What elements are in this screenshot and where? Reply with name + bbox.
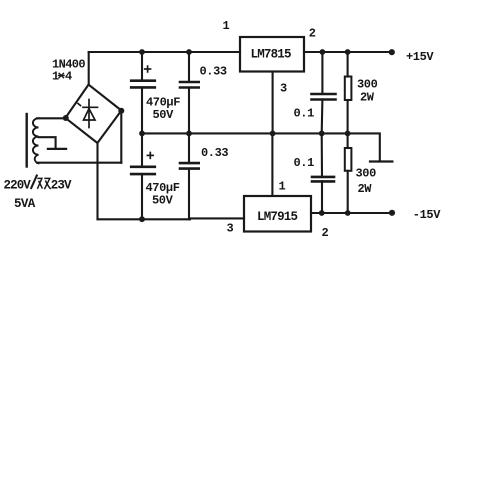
wire: -15V output rail [311, 212, 392, 214]
svg-text:2W: 2W [358, 182, 373, 196]
svg-text:3: 3 [227, 222, 234, 236]
svg-text:-15V: -15V [413, 208, 441, 222]
svg-text:50V: 50V [152, 194, 174, 208]
diode symbol inside bridge [78, 100, 98, 128]
node: -15V rail junctions [319, 210, 325, 216]
svg-text:0.33: 0.33 [201, 146, 228, 160]
transformer T1 core [26, 114, 28, 167]
svg-text:220V: 220V [4, 179, 32, 193]
capacitor C2 0.33 upper [180, 52, 199, 133]
wire: top +rail [89, 51, 240, 53]
wire: bottom -rail left [98, 217, 245, 220]
svg-text:1: 1 [223, 19, 230, 33]
capacitor C1 470uF upper [131, 52, 155, 133]
wire: secondary top to bridge AC node [37, 117, 66, 119]
wire: center tap [39, 137, 56, 147]
resistor R1 300 2W [345, 52, 352, 133]
svg-text:LM7815: LM7815 [251, 48, 292, 62]
node: 0V rail junctions [139, 131, 145, 137]
svg-text:300: 300 [357, 78, 378, 92]
capacitor C6 0.1 lower [312, 133, 334, 213]
wire: bridge + output up to +rail [88, 52, 90, 85]
op-amp U2 LM7915 box [244, 196, 311, 232]
node: junction dots top rail [63, 49, 395, 222]
resistor R2 300 2W [345, 133, 352, 213]
svg-text:300: 300 [356, 167, 377, 181]
svg-text:3: 3 [280, 82, 287, 96]
svg-text:4: 4 [65, 70, 72, 84]
svg-text:LM7915: LM7915 [257, 210, 298, 224]
node: -rail left junction [139, 216, 145, 222]
wire: bridge - output down to -rail [96, 143, 98, 219]
svg-text:+15V: +15V [406, 50, 434, 64]
transformer T1 secondary winding [33, 118, 39, 163]
wire: bridge right AC node down [120, 111, 122, 163]
wire: secondary bottom to bridge AC node [37, 162, 121, 164]
capacitor C5 0.1 upper [312, 52, 336, 133]
capacitor C3 470uF lower [131, 133, 155, 219]
svg-text:5VA: 5VA [14, 197, 36, 211]
svg-text:2W: 2W [360, 91, 375, 105]
node: bridge AC left [63, 115, 69, 121]
capacitor C4 0.33 lower [180, 133, 199, 219]
ground: center tap ground bar [48, 148, 66, 150]
label: 220V / 双 23V [4, 175, 73, 193]
node: bridge AC right [118, 108, 124, 114]
node: -15V terminal [389, 210, 395, 216]
svg-text:23V: 23V [51, 179, 72, 193]
svg-text:0.33: 0.33 [200, 65, 227, 79]
wire: +15V output rail [304, 51, 392, 53]
node: +15V rail junctions [320, 49, 326, 55]
svg-text:0.1: 0.1 [294, 156, 315, 170]
svg-text:1: 1 [279, 179, 286, 193]
wire: U2 pin1 to 0V rail [271, 133, 273, 196]
bridge rectifier D1 (diamond) [65, 85, 121, 143]
ground: 0V rail ground bar [370, 160, 392, 162]
svg-text:0.1: 0.1 [294, 107, 315, 121]
svg-text:2: 2 [322, 226, 329, 240]
node: +15V terminal [389, 49, 395, 55]
wire: U1 pin3 to 0V rail [272, 72, 274, 134]
hanzi: 双 (drawn) [37, 178, 50, 189]
svg-text:2: 2 [309, 27, 316, 41]
wire: middle 0V rail [142, 133, 380, 161]
op-amp U1 LM7815 box [240, 37, 304, 72]
svg-text:1: 1 [52, 70, 59, 84]
svg-text:50V: 50V [153, 108, 175, 122]
